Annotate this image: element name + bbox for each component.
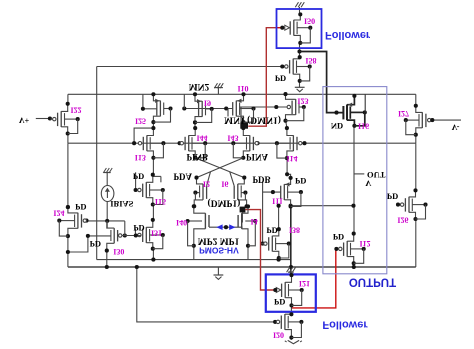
node I25 gate	[141, 107, 145, 111]
wire I2 gate spur	[207, 172, 211, 186]
svg-text:I10: I10	[237, 84, 248, 93]
label I25	[135, 117, 146, 126]
svg-text:PD: PD	[133, 171, 144, 181]
transistor I43	[231, 126, 258, 160]
transistor I20	[276, 312, 303, 339]
wire I24 gate to IBIAS	[86, 220, 125, 222]
label PD I26	[387, 192, 398, 202]
label ND	[331, 121, 343, 131]
wire right column to I26	[415, 143, 417, 190]
node I38 top	[277, 204, 281, 208]
label PDB	[253, 175, 271, 185]
label PINA	[246, 152, 268, 162]
label I40	[176, 218, 187, 227]
transistor I58	[285, 55, 312, 83]
svg-text:PD: PD	[274, 297, 285, 307]
label V-	[452, 123, 460, 132]
svg-text:I2: I2	[203, 179, 210, 188]
node I14 gate	[302, 141, 306, 145]
wire I22 top stub	[67, 94, 69, 104]
label I13	[135, 153, 146, 162]
ground W5 center	[214, 267, 224, 279]
ground I58	[295, 87, 305, 91]
label I15	[155, 197, 166, 206]
transistor I21	[276, 273, 304, 307]
wire red follower1 gate	[276, 27, 283, 29]
node I23 gate	[274, 105, 278, 109]
transistor I30	[86, 221, 141, 253]
svg-text:I23: I23	[297, 96, 308, 105]
wire MN1 label stub	[227, 109, 229, 117]
label PD I21	[274, 297, 285, 307]
wire I25 gate drop	[143, 94, 157, 109]
node I26 gate	[396, 203, 400, 207]
transistor I10	[233, 92, 256, 124]
node I24 top	[66, 205, 70, 209]
node I11 gate	[271, 190, 275, 194]
svg-text:I43: I43	[227, 134, 238, 143]
wire I14-I11 jog	[287, 158, 291, 178]
label I44	[196, 134, 207, 143]
wire bottom rail W5	[68, 266, 416, 268]
node I21 gate	[273, 288, 277, 292]
transistor I23	[283, 92, 305, 123]
node V+ wire end	[48, 116, 52, 120]
svg-text:MN1 (DMN1): MN1 (DMN1)	[224, 115, 281, 126]
wire IBIAS col top	[106, 177, 108, 186]
label PMOS-HV	[199, 245, 239, 255]
wire I58 gate net from frame	[97, 66, 286, 68]
label DMP1	[208, 198, 241, 209]
transistor I2	[192, 176, 206, 209]
node I13 gate	[132, 141, 136, 145]
label PDA	[174, 171, 193, 181]
label Follower2	[322, 318, 368, 330]
label I24	[53, 209, 64, 218]
svg-text:I12: I12	[359, 239, 370, 248]
node out link left	[289, 204, 293, 208]
label PD I12	[333, 232, 344, 242]
wire I38 gate stub	[263, 243, 267, 245]
wire diag PINB	[195, 158, 244, 178]
wire bus W4B	[97, 259, 291, 261]
wire VDD rail top	[68, 93, 416, 95]
svg-text:I14: I14	[286, 154, 297, 163]
label I31	[151, 228, 162, 237]
node W4B-W5 join	[289, 265, 293, 269]
transistor I9	[193, 92, 214, 124]
wire I24 top column	[67, 143, 69, 207]
svg-text:I26: I26	[397, 216, 408, 225]
wire I9-I44 column	[194, 122, 196, 128]
svg-text:I4: I4	[251, 217, 258, 226]
box follower2	[266, 274, 316, 311]
wire I11 src to ground col	[290, 207, 292, 276]
label I27	[398, 109, 409, 118]
wire I25I13 column	[152, 122, 154, 128]
svg-text:PD: PD	[75, 202, 86, 212]
ground follower1 hatch	[295, 2, 304, 7]
svg-text:Follower: Follower	[325, 29, 371, 41]
node I43 gate	[255, 141, 259, 145]
wire I30 bottom to W5	[106, 251, 108, 267]
wire I24 bottom column	[67, 236, 69, 267]
wire I38 bottom is on W4B	[277, 258, 281, 262]
svg-text:PDA: PDA	[174, 171, 193, 181]
transistor I22	[50, 102, 79, 136]
node I30 bulk jog a	[66, 250, 70, 254]
label PINB	[186, 152, 208, 162]
svg-text:I22: I22	[70, 106, 81, 115]
wire OUT column	[354, 126, 364, 234]
wire red DMN1 to follower1	[248, 28, 276, 127]
label OUTPUT	[349, 276, 396, 288]
transistor I4	[229, 204, 257, 248]
label I12	[359, 239, 370, 248]
node I15 gate	[134, 188, 138, 192]
node I58 gate	[280, 64, 284, 68]
label OUT	[367, 170, 386, 180]
ground W4B hatch	[287, 267, 296, 272]
svg-text:PD: PD	[387, 192, 398, 202]
label I16	[358, 121, 369, 130]
transistor I50	[285, 12, 313, 45]
label I22	[70, 106, 81, 115]
label I20	[273, 330, 284, 339]
svg-text:PMOS-HV: PMOS-HV	[199, 245, 239, 255]
wire I22 bottom stub	[67, 134, 69, 144]
current source IBIAS	[101, 186, 114, 202]
wire W5 to I20 gate line	[137, 267, 275, 322]
svg-text:I16: I16	[358, 121, 369, 130]
svg-text:I40: I40	[176, 218, 187, 227]
wire I15 gate stub	[136, 172, 141, 190]
square DMN1 tap	[240, 123, 248, 129]
label PD I30	[90, 239, 101, 249]
wire DMP1 square drop	[241, 212, 243, 222]
wire I21 top column	[0, 0, 1, 1]
wire red follower2 out to I12	[292, 249, 336, 308]
label MN2	[189, 81, 210, 91]
svg-text:Follower: Follower	[322, 318, 368, 330]
svg-text:I50: I50	[304, 17, 315, 26]
label PD I31	[133, 223, 144, 233]
svg-text:PD: PD	[295, 176, 306, 186]
label I50	[304, 17, 315, 26]
wire V+ input	[36, 118, 50, 120]
transistor I26	[398, 188, 428, 221]
wire diag PINA	[197, 158, 244, 178]
label PD I11	[295, 176, 306, 186]
wire I27 top stub	[415, 94, 417, 106]
label I9	[204, 98, 211, 107]
svg-text:PINB: PINB	[186, 152, 208, 162]
node IBIAS join	[105, 219, 109, 223]
wire I23-I14 column	[286, 121, 287, 128]
svg-text:(DMP1): (DMP1)	[208, 198, 241, 209]
wire left bias frame vertical	[96, 67, 98, 260]
wire red DMP1 to follower2	[245, 210, 275, 290]
svg-text:I13: I13	[135, 153, 146, 162]
node I20 gate	[273, 320, 277, 324]
svg-text:PD: PD	[333, 232, 344, 242]
node I24 gate end	[84, 219, 88, 223]
wire I9 gate drop	[183, 94, 185, 108]
node I50 gate	[280, 26, 284, 30]
transistor I27	[404, 104, 461, 137]
svg-text:I11: I11	[272, 197, 283, 206]
node I44 gate	[178, 141, 182, 145]
svg-text:I27: I27	[398, 109, 409, 118]
box output stage	[323, 87, 387, 274]
label PD I58	[275, 73, 286, 83]
wire I13 diode loop	[134, 128, 153, 143]
wire DMP1 gate bus	[209, 226, 243, 228]
label I30	[113, 247, 124, 256]
svg-text:I31: I31	[151, 228, 162, 237]
svg-text:MN2: MN2	[189, 81, 210, 91]
wire I12 bottom to W5	[352, 263, 356, 269]
transistor I13	[138, 126, 165, 160]
node DMP1 gate mid	[224, 225, 228, 229]
label I23	[297, 96, 308, 105]
node I30 bottom W5	[105, 265, 109, 269]
wire rail2 (mirror gate bus)	[68, 142, 416, 144]
svg-text:I21: I21	[299, 279, 310, 288]
wire PDA jog	[153, 176, 161, 182]
transistor I24	[57, 205, 86, 238]
node I12 gate red	[334, 247, 338, 251]
svg-text:IBIAS: IBIAS	[110, 199, 133, 209]
wire I6 gate spur	[230, 172, 234, 186]
wire IBIAS to I30 drain	[106, 221, 108, 228]
svg-text:I15: I15	[155, 197, 166, 206]
box follower1	[277, 9, 322, 48]
transistor I12	[339, 232, 366, 266]
transistor I38	[262, 227, 291, 260]
wire I21-I20 column	[290, 305, 292, 314]
wire PDB column	[262, 182, 264, 244]
wire I11 gate from PDB	[263, 191, 281, 193]
wire I15-I31 column	[152, 205, 154, 220]
wire I26 bottom to W5	[415, 219, 417, 267]
square DMP1 tap	[240, 207, 246, 213]
svg-text:V: V	[365, 178, 372, 188]
label I6	[221, 179, 228, 188]
label I11	[272, 197, 283, 206]
wire out link	[291, 205, 354, 207]
label Follower1	[325, 29, 371, 41]
svg-text:PD: PD	[90, 239, 101, 249]
transistor I6	[234, 176, 248, 209]
svg-text:PDB: PDB	[253, 175, 271, 185]
svg-text:I24: I24	[53, 209, 64, 218]
label I26	[397, 216, 408, 225]
label I43	[227, 134, 238, 143]
svg-text:PINA: PINA	[246, 152, 268, 162]
label IBIAS	[110, 199, 133, 209]
wire mn row net	[184, 108, 232, 110]
transistor I15	[138, 173, 165, 207]
svg-text:I30: I30	[113, 247, 124, 256]
wire I31 bottom to W4B	[152, 249, 154, 260]
wire tap to I16 gate	[300, 52, 344, 115]
ground IBIAS hatch	[103, 168, 112, 177]
svg-text:I9: I9	[204, 98, 211, 107]
node I9 src	[193, 120, 197, 124]
svg-text:I6: I6	[221, 179, 228, 188]
wire I10-I43 column	[243, 122, 245, 128]
transistor I31	[138, 218, 165, 251]
wire I4 bottom to W4B	[247, 246, 249, 260]
ground MN2	[214, 83, 223, 94]
svg-text:MP2 MP1: MP2 MP1	[198, 236, 240, 246]
wire I50-I58 column	[299, 43, 301, 57]
wire mn row net right	[240, 106, 287, 108]
ground I20 hatch	[285, 338, 302, 344]
label I21	[299, 279, 310, 288]
label I38	[289, 226, 300, 235]
wire IBIAS col bottom	[106, 201, 108, 220]
svg-text:V+: V+	[19, 116, 30, 125]
label I4	[251, 217, 258, 226]
label PD I24	[75, 202, 86, 212]
label I14	[286, 154, 297, 163]
label PD I38	[266, 226, 277, 236]
svg-text:PD: PD	[275, 73, 286, 83]
transistor I16	[343, 94, 366, 128]
svg-text:OUTPUT: OUTPUT	[349, 276, 396, 288]
transistor I44	[180, 126, 207, 160]
node W5 corner	[135, 265, 139, 269]
wire I13-I15 column	[152, 158, 154, 175]
svg-text:ND: ND	[331, 121, 343, 131]
label MP2MP1	[198, 236, 240, 246]
transistor I14	[275, 126, 302, 160]
node PDB-I38	[261, 242, 265, 246]
svg-text:I44: I44	[196, 134, 207, 143]
svg-text:PD: PD	[133, 223, 144, 233]
svg-text:V-: V-	[452, 123, 460, 132]
label V+	[19, 116, 30, 125]
transistor I11	[281, 176, 303, 209]
wire I58 gnd stem	[299, 81, 301, 87]
label V out	[365, 178, 372, 188]
wire follower1 gnd stem	[299, 7, 301, 14]
node I50I58 tap	[297, 49, 301, 53]
node I31 W4B	[151, 258, 155, 262]
wire I40 bottom to W4B	[193, 246, 195, 260]
node mn row b	[224, 106, 228, 110]
node I14 jog	[285, 172, 289, 176]
svg-text:I20: I20	[273, 330, 284, 339]
wire I31 gate stub	[134, 229, 136, 236]
wire I30 bulk jog	[68, 236, 88, 252]
node out link right	[351, 204, 355, 208]
label I10	[237, 84, 248, 93]
label I58	[305, 56, 316, 65]
wire DMN1 square drop	[240, 107, 242, 123]
svg-text:I38: I38	[289, 226, 300, 235]
svg-text:PD: PD	[266, 226, 277, 236]
label MN1	[224, 115, 281, 126]
label PD I15	[133, 171, 144, 181]
svg-text:I25: I25	[135, 117, 146, 126]
svg-text:I58: I58	[305, 56, 316, 65]
node mn row a	[182, 106, 186, 110]
label I2	[203, 179, 210, 188]
wire I27 bottom stub	[415, 135, 417, 144]
transistor I25	[151, 92, 172, 124]
transistor I40	[186, 204, 223, 248]
wire I38 top to out link	[278, 206, 280, 230]
